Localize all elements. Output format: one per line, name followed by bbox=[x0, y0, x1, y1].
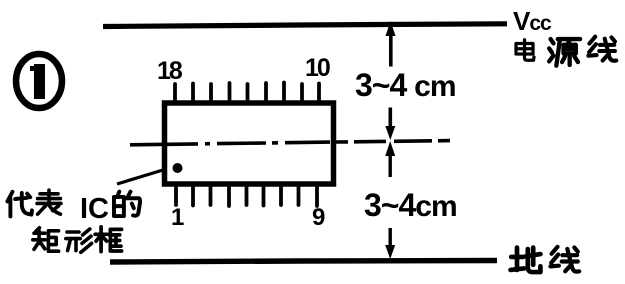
svg-text:10: 10 bbox=[305, 54, 330, 82]
IC U1 pin-1 dot bbox=[173, 163, 183, 173]
node label 电源线 (power line) bbox=[516, 37, 616, 66]
dimension arrow up from centerline bbox=[385, 141, 395, 177]
svg-text:1: 1 bbox=[171, 204, 184, 231]
wire dash-dot centerline through IC bbox=[130, 141, 450, 145]
IC U1 bottom pins (1..9) bbox=[176, 185, 317, 206]
svg-text:18: 18 bbox=[157, 57, 183, 85]
svg-text:9: 9 bbox=[312, 204, 325, 231]
dimension arrow down to ground line bbox=[385, 228, 395, 259]
svg-text:3~4cm: 3~4cm bbox=[364, 187, 457, 223]
IC U1 top pins (18..10) bbox=[175, 83, 319, 103]
wire Vcc power line bbox=[103, 24, 507, 27]
svg-text:3~4 cm: 3~4 cm bbox=[355, 67, 456, 103]
node label 代表 IC的 (represents IC) bbox=[7, 190, 140, 225]
node label 地线 (ground line) bbox=[511, 247, 580, 272]
dimension arrow down to centerline bbox=[385, 108, 395, 141]
dimension arrow up to Vcc line bbox=[386, 21, 396, 67]
wire ground line bbox=[110, 261, 497, 263]
svg-text:IC: IC bbox=[80, 193, 109, 225]
node circled-1 figure label bbox=[16, 54, 62, 108]
IC U1 rectangle body bbox=[165, 103, 334, 184]
leader line to IC body bbox=[117, 170, 163, 184]
node label 矩形框 (rectangular frame) bbox=[33, 227, 122, 253]
